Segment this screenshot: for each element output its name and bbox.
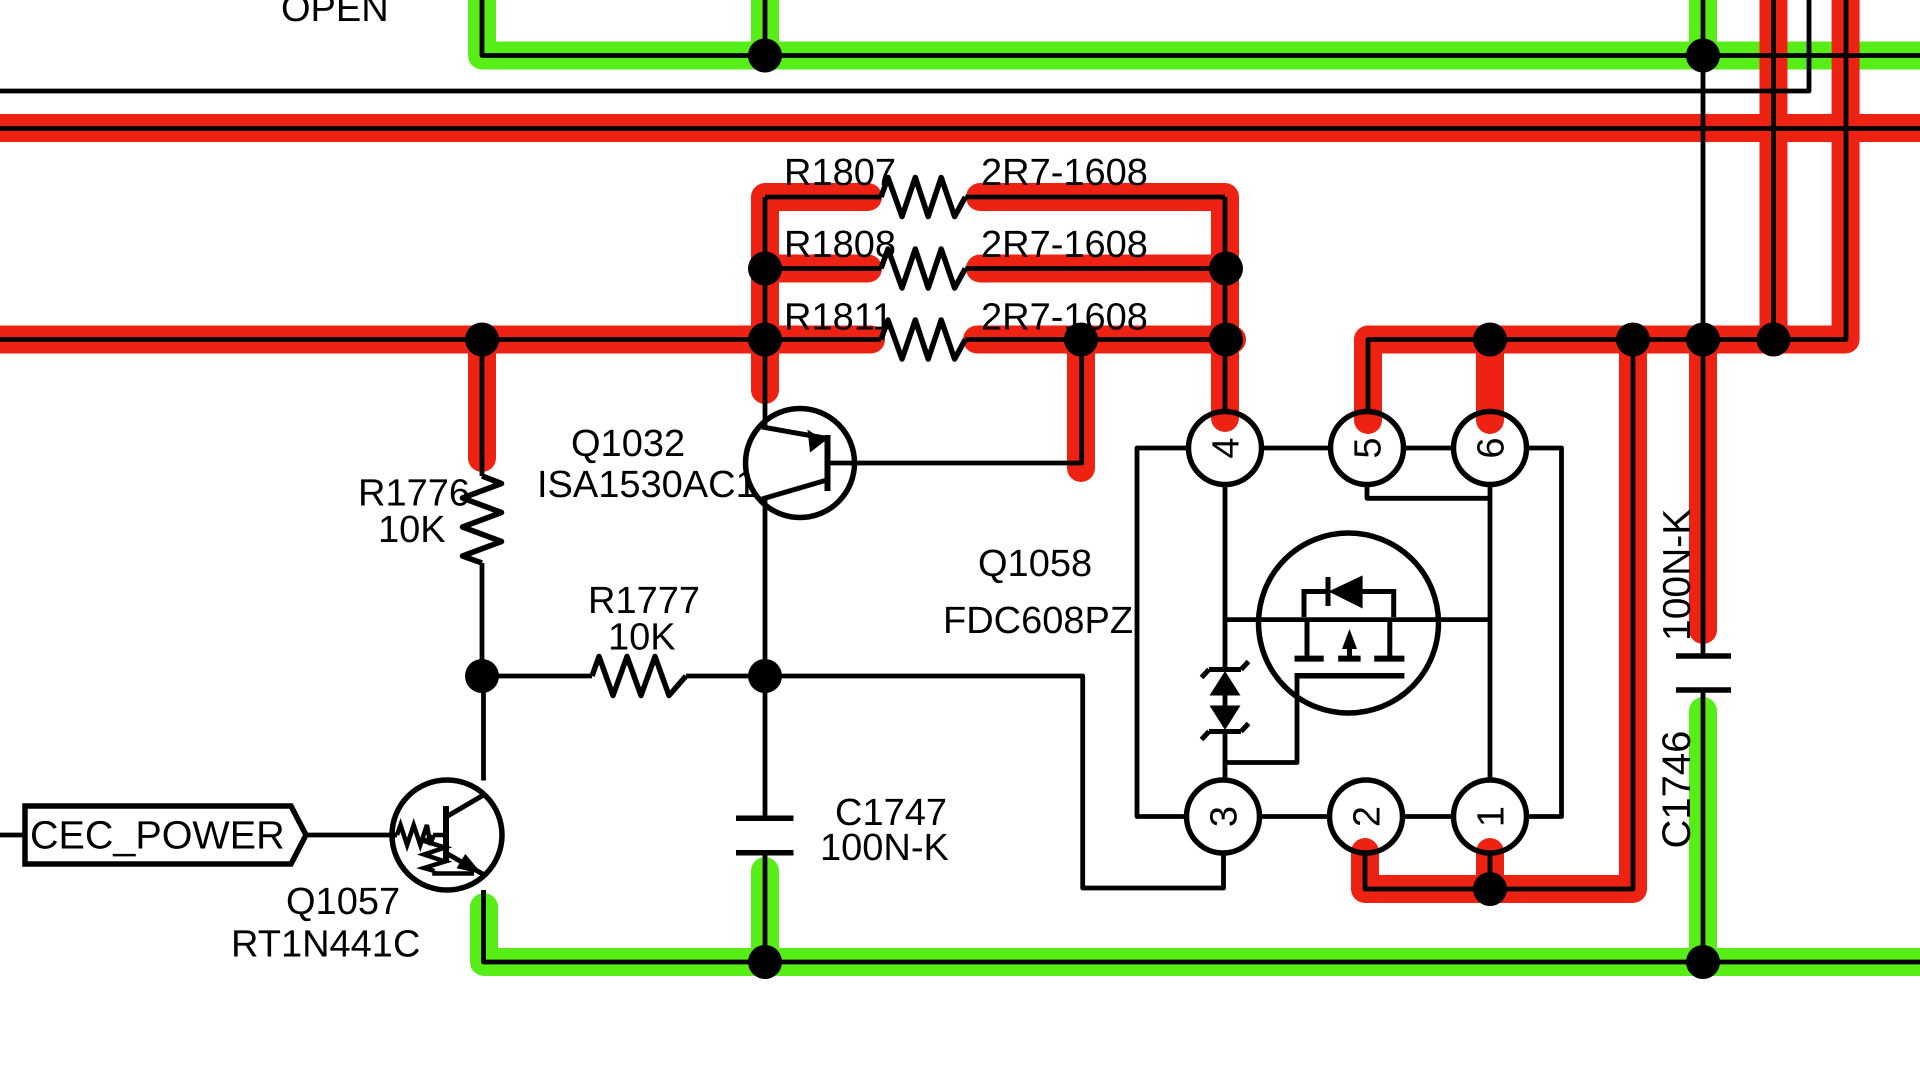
svg-text:CEC_POWER: CEC_POWER: [30, 814, 285, 858]
svg-text:2: 2: [1347, 806, 1389, 827]
svg-text:10K: 10K: [608, 617, 676, 659]
svg-text:FDC608PZ: FDC608PZ: [943, 600, 1133, 642]
svg-text:OPEN: OPEN: [281, 0, 389, 30]
svg-text:2R7-1608: 2R7-1608: [981, 297, 1148, 339]
svg-text:5: 5: [1348, 437, 1390, 458]
svg-text:2R7-1608: 2R7-1608: [981, 152, 1148, 194]
svg-text:R1808: R1808: [784, 224, 896, 266]
svg-text:C1746: C1746: [1655, 731, 1699, 849]
svg-text:1: 1: [1471, 806, 1513, 827]
svg-text:ISA1530AC1: ISA1530AC1: [537, 464, 757, 506]
svg-text:Q1057: Q1057: [286, 881, 400, 923]
svg-text:2R7-1608: 2R7-1608: [981, 224, 1148, 266]
svg-text:3: 3: [1204, 806, 1246, 827]
svg-text:4: 4: [1206, 437, 1248, 458]
svg-text:R1807: R1807: [784, 152, 896, 194]
svg-text:6: 6: [1471, 437, 1513, 458]
svg-text:100N-K: 100N-K: [1656, 509, 1699, 641]
svg-text:10K: 10K: [378, 509, 446, 551]
svg-text:RT1N441C: RT1N441C: [231, 924, 420, 966]
svg-text:R1811: R1811: [784, 297, 893, 339]
svg-text:Q1032: Q1032: [571, 423, 685, 465]
svg-text:100N-K: 100N-K: [820, 827, 949, 869]
svg-text:Q1058: Q1058: [978, 543, 1092, 585]
